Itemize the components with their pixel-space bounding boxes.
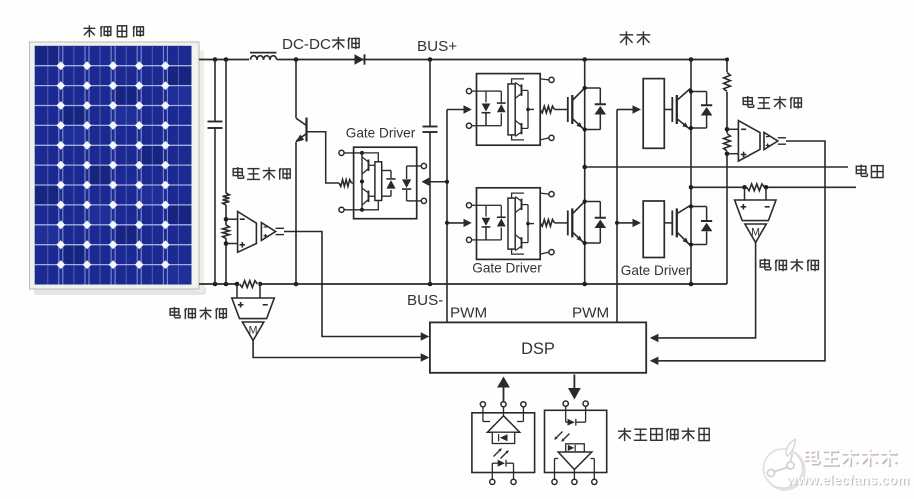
svg-text:PWM: PWM [572,305,609,322]
resistor Rs2 shunt [746,185,765,190]
arrowhead PWM into U5 [422,178,430,186]
op-amp U4 M stage [242,322,263,341]
label 数字通讯光耦 [618,430,631,432]
arrowhead into DSP left 2 [421,353,430,361]
arrowhead into gate driver D [633,219,642,227]
terminal pins top [563,401,568,406]
wire PWM right from DSP [616,110,618,323]
capacitor C2 bus [429,60,431,127]
DSP U14 box [430,322,646,372]
watermark 电子发烧友 text [806,452,818,461]
terminal pins bottom [552,479,557,484]
svg-text:BUS-: BUS- [407,292,443,309]
watermark elecfans logo [764,440,805,490]
label 电网 [856,166,866,173]
node bottom junctions [213,282,218,287]
label 电流检测 right [760,260,769,267]
optocoupler U16 box [545,410,607,472]
svg-text:M: M [751,227,760,239]
arrowhead into DSP right 1 [650,334,659,342]
terminal pins right [421,163,426,168]
diode D3 opto out [406,166,408,179]
svg-text:M: M [249,325,258,337]
svg-text:DSP: DSP [521,340,555,358]
arrowhead into gate driver C [633,105,642,113]
arrowhead into DSP right 2 [650,357,659,365]
op-amp U10 voltage sense right [738,121,760,162]
buffer rect [508,84,515,135]
arrowhead into gate driver A [464,105,472,113]
IGBT Q4 top-right [671,97,673,122]
inductor L1 [249,58,277,62]
label 电流检测 left [170,309,179,316]
node divider taps right [725,127,730,132]
wire shunt taps [236,284,238,298]
diode D2 clamp [382,170,391,172]
terminal pins right [549,192,554,197]
transistor Q1 boost switch [295,60,297,119]
light arrows [494,449,502,457]
node phase A [582,165,587,170]
svg-text:PWM: PWM [450,305,487,322]
LED D9 [491,463,493,472]
terminal pins left [466,89,471,94]
resistor R4 [722,133,732,152]
op-amp U2 buffer [261,223,275,241]
gate driver U7 box [477,188,541,260]
diode D4 freewheel [585,87,601,89]
svg-text:Gate Driver: Gate Driver [346,126,416,141]
node phase B [689,185,694,190]
label 电压检测 left [233,169,242,176]
wire U13 output to DSP [658,243,755,338]
terminal pins top [480,402,485,407]
resistor Rg1 gate [339,180,352,187]
light arrows [555,432,563,440]
capacitor C1 input [214,60,216,122]
phototransistor triangle [487,416,519,432]
op-amp U12 current sense right [735,200,776,221]
wire phase B to grid [691,186,856,188]
label 逆变 [620,34,634,36]
resistor R3 [722,72,732,92]
label 电压检测 right [743,98,752,105]
diode D1 boost [355,54,365,64]
gate driver U5 box [354,147,417,219]
wire U11 output to DSP [658,141,825,361]
wire right leg rail [690,60,692,285]
wire PWM left from DSP [446,110,448,323]
node top junctions [213,57,218,62]
wire right divider drop [726,60,728,285]
resistor R1 divider top [225,60,227,194]
phototransistor triangle [558,452,592,470]
wire left leg rail [584,60,586,285]
transistor pair [521,199,523,211]
gate driver U9 rect [643,201,664,258]
buffer rect [508,198,515,249]
opto LED pair [485,91,487,102]
label 光伏组件 [84,27,96,29]
PV panel PV1 (光伏组件 photo) [30,42,207,295]
resistor R2 divider bottom [223,225,230,239]
LED D10 [568,419,575,426]
svg-text:www.elecfans.com: www.elecfans.com [786,472,910,487]
op-amp U3 current sense left [232,298,274,319]
terminal pins right [549,77,554,82]
diode D11 [566,444,585,452]
wire U4 output to DSP [253,341,421,358]
diode D6 freewheel [691,91,707,93]
arrowhead into DSP left 1 [421,332,430,340]
terminal pins left [339,150,344,155]
wire internal rail [361,153,363,210]
resistor Rg3 [540,220,554,227]
node divider taps [224,217,229,222]
svg-text:Gate Driver: Gate Driver [621,263,691,278]
wire Q1 base to gate driver [308,132,340,183]
buffer rect U5 [362,153,378,162]
wire BUS- bottom bus [199,283,727,285]
optocoupler U15 box [472,413,535,473]
resistor Rg2 [540,106,554,113]
gate driver U8 rect [643,79,664,149]
IGBT Q3 bottom-left [567,210,569,235]
resistor Rs1 shunt [239,282,259,287]
wire U2 output to DSP [284,232,421,337]
opto LED pair [485,205,487,216]
op-amp U11 buffer [764,132,778,149]
arrow DSP to/from optos [503,385,505,402]
diode D7 freewheel [691,206,707,208]
diode D5 freewheel [585,201,601,203]
gate driver U6 box [477,74,541,146]
wire DC+ top bus [199,59,727,61]
wire phase A to grid [585,166,848,168]
svg-text:DC-DC: DC-DC [282,36,331,53]
diode D8 [492,432,514,443]
svg-text:Gate Driver: Gate Driver [472,260,542,275]
terminal pins left [466,203,471,208]
IGBT Q5 bottom-right [671,210,673,235]
terminal pins bottom [490,479,495,484]
op-amp U13 M stage [745,224,766,243]
IGBT Q2 top-left [567,97,569,122]
arrowhead into gate driver B [464,219,472,227]
op-amp U1 voltage sense left [238,212,257,253]
transistor pair U5 push-pull [368,160,370,172]
transistor pair [521,84,523,96]
svg-text:BUS+: BUS+ [417,38,457,55]
